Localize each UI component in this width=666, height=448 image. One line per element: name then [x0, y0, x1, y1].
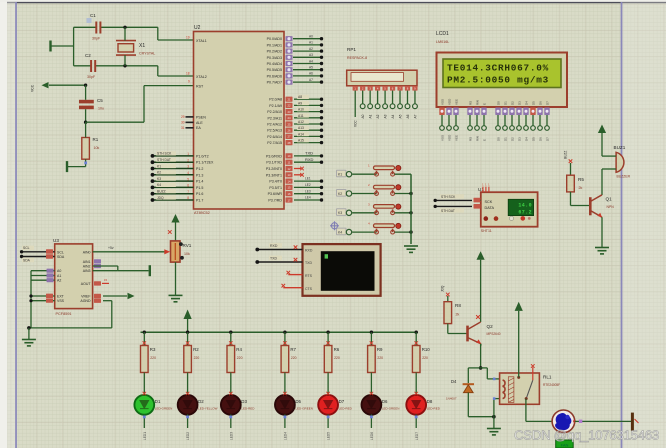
svg-text:R1: R1: [93, 137, 99, 142]
svg-text:PCF8591: PCF8591: [56, 312, 72, 316]
ground below RV1: [169, 295, 183, 301]
svg-text:P0.5/AD5: P0.5/AD5: [267, 68, 282, 72]
wire relay coil bottom to ground junction: [494, 398, 500, 400]
svg-text:LED6: LED6: [370, 432, 374, 440]
svg-text:CRYSTAL: CRYSTAL: [139, 52, 155, 56]
svg-text:D5: D5: [532, 137, 536, 141]
svg-text:A12: A12: [298, 120, 304, 124]
svg-text:P0.6/AD6: P0.6/AD6: [267, 74, 282, 78]
RV1 wiper arrow: [164, 249, 170, 254]
svg-text:P3.1/TXD: P3.1/TXD: [266, 161, 282, 165]
svg-text:LED-GREEN: LED-GREEN: [295, 407, 313, 411]
svg-text:P2.6/A14: P2.6/A14: [267, 135, 282, 139]
svg-text:LED-RED: LED-RED: [427, 407, 441, 411]
svg-text:K4: K4: [338, 231, 342, 235]
svg-text:C2: C2: [85, 53, 91, 58]
svg-text:U3: U3: [53, 238, 59, 243]
svg-text:D3: D3: [241, 399, 247, 404]
svg-text:LED5: LED5: [327, 432, 331, 440]
svg-text:D0: D0: [497, 101, 501, 105]
svg-text:TXD: TXD: [305, 261, 312, 265]
svg-text:BUZZER: BUZZER: [617, 175, 631, 179]
svg-text:RXD: RXD: [305, 157, 314, 162]
svg-text:1: 1: [187, 152, 189, 156]
svg-text:XTAL1: XTAL1: [196, 39, 207, 43]
wire below LED D3: [230, 414, 232, 428]
svg-text:P1.2: P1.2: [196, 167, 203, 171]
svg-text:A1: A1: [309, 41, 313, 45]
svg-text:VEE: VEE: [455, 135, 459, 141]
U2 PSEN ALE EA pins: [186, 116, 194, 118]
wire crystal to nets: [124, 27, 126, 40]
svg-text:P1.7: P1.7: [196, 199, 203, 203]
svg-text:A9: A9: [298, 101, 302, 105]
LED D1 LED-GREEN: [134, 395, 154, 415]
svg-text:P3.5/T1: P3.5/T1: [269, 186, 282, 190]
svg-text:11: 11: [288, 161, 291, 165]
svg-text:SCL: SCL: [57, 250, 64, 254]
svg-text:K3: K3: [157, 177, 161, 181]
svg-text:C5: C5: [97, 98, 103, 103]
svg-text:LED7: LED7: [415, 432, 419, 440]
svg-text:P0.2/AD2: P0.2/AD2: [267, 50, 282, 54]
wire Q2 emitter junction: [480, 344, 482, 346]
svg-text:A0: A0: [361, 114, 365, 118]
wire LED supply bus: [141, 331, 419, 333]
svg-text:Q1: Q1: [606, 197, 613, 202]
LED D7 LED-RED: [318, 395, 338, 415]
power arrow to relay common: [515, 302, 523, 311]
svg-text:31: 31: [181, 126, 185, 130]
svg-text:X1: X1: [139, 43, 145, 49]
svg-text:RS: RS: [469, 101, 473, 105]
svg-text:A8: A8: [298, 95, 302, 99]
svg-text:D2: D2: [511, 101, 515, 105]
svg-text:A5: A5: [399, 114, 403, 118]
svg-text:P1.1/T2EX: P1.1/T2EX: [196, 161, 214, 165]
wire Q1 emitter to ground: [601, 217, 603, 247]
ground below R1: [66, 161, 68, 172]
svg-text:P3.0/RXD: P3.0/RXD: [266, 154, 282, 158]
LED D3 LED-RED: [221, 395, 241, 415]
svg-text:RST: RST: [196, 85, 204, 89]
svg-text:A1: A1: [369, 114, 373, 118]
LCD LCD1 body: [437, 53, 568, 108]
svg-text:D0: D0: [497, 137, 501, 141]
svg-text:A3: A3: [309, 53, 313, 57]
wire left vertical: [73, 27, 75, 66]
svg-text:R3: R3: [150, 347, 156, 352]
wire below LED D5: [284, 414, 286, 428]
U2 P1 pins with net labels: [153, 155, 194, 157]
resistor R1: [82, 138, 90, 160]
svg-text:STH DAT: STH DAT: [441, 209, 455, 213]
svg-text:P0.1/AD1: P0.1/AD1: [267, 43, 282, 47]
svg-text:R6: R6: [334, 347, 340, 352]
svg-text:R7: R7: [290, 347, 296, 352]
op-amp U2 AT89C52 microcontroller body: [194, 32, 285, 210]
svg-text:STH SCK: STH SCK: [441, 195, 456, 199]
svg-text:D3: D3: [518, 101, 522, 105]
AOUT stub: [94, 281, 101, 285]
svg-text:220: 220: [334, 356, 340, 360]
svg-text:10: 10: [287, 154, 291, 158]
svg-text:VSS: VSS: [441, 135, 445, 141]
svg-text:P2.3/A11: P2.3/A11: [267, 116, 282, 120]
relay coil: [503, 380, 505, 399]
svg-text:LE4: LE4: [305, 196, 311, 200]
svg-text:10k: 10k: [184, 252, 190, 256]
svg-text:A7: A7: [413, 114, 417, 118]
svg-text:220: 220: [422, 356, 428, 360]
svg-text:VREF: VREF: [81, 295, 90, 299]
svg-text:XTAL2: XTAL2: [196, 75, 207, 79]
wire A0 A1 A2 to ground rail: [31, 270, 55, 272]
svg-text:A6: A6: [406, 114, 410, 118]
svg-text:P1.5: P1.5: [196, 186, 203, 190]
svg-text:D8: D8: [427, 399, 433, 404]
resistor R6: [326, 331, 329, 334]
svg-text:LED1: LED1: [143, 432, 147, 440]
svg-text:K1: K1: [338, 173, 342, 177]
svg-text:R8: R8: [455, 303, 461, 308]
svg-text:D4: D4: [525, 101, 529, 105]
svg-text:P2.0/A8: P2.0/A8: [269, 98, 282, 102]
transistor Q1 NPN: [589, 197, 592, 215]
wire AIN0 to RV1 wiper: [93, 251, 165, 253]
wire below LED D8: [415, 414, 417, 428]
fan label green box: [556, 440, 574, 448]
svg-text:AT89C52: AT89C52: [194, 211, 210, 215]
power arrow above Q2: [477, 251, 485, 260]
LCD screen with text: [443, 59, 561, 88]
svg-text:14.0: 14.0: [518, 203, 532, 209]
supply bar terminal: [631, 413, 634, 431]
wire VCC to C5: [49, 84, 86, 86]
svg-text:P1.4: P1.4: [196, 180, 203, 184]
wire below LED D6: [370, 414, 372, 428]
svg-text:LE1: LE1: [305, 177, 311, 181]
wire U1 DATA: [435, 205, 472, 207]
svg-text:A0: A0: [57, 269, 61, 273]
svg-text:LED-RED: LED-RED: [241, 407, 255, 411]
transistor Q2: [466, 326, 469, 342]
svg-text:RXD: RXD: [270, 244, 278, 248]
svg-text:VDD: VDD: [448, 98, 452, 105]
svg-text:RESPACK-8: RESPACK-8: [347, 56, 367, 60]
resistor R9: [370, 331, 373, 334]
svg-text:P3.6/WR: P3.6/WR: [268, 192, 283, 196]
svg-text:D2: D2: [511, 137, 515, 141]
svg-text:E: E: [483, 139, 487, 141]
svg-text:VDD: VDD: [448, 134, 452, 141]
svg-text:8: 8: [187, 196, 189, 200]
capacitor C1: [96, 22, 100, 34]
svg-text:15: 15: [287, 186, 291, 190]
svg-text:18: 18: [186, 72, 190, 76]
svg-text:P3.4/T0: P3.4/T0: [269, 180, 282, 184]
svg-text:D1: D1: [504, 101, 508, 105]
svg-text:15: 15: [104, 278, 108, 282]
LED D2 LED-YELLOW: [178, 395, 198, 415]
svg-text:SCL: SCL: [23, 246, 30, 250]
svg-text:P1.6: P1.6: [196, 192, 203, 196]
svg-text:LE3: LE3: [305, 189, 311, 193]
svg-text:A5: A5: [309, 66, 313, 70]
svg-text:RP1: RP1: [347, 47, 356, 52]
svg-text:P2.4/A12: P2.4/A12: [267, 123, 282, 127]
wire below LED D7: [327, 414, 329, 428]
svg-text:LED4: LED4: [284, 432, 288, 440]
ground below U3: [22, 340, 36, 346]
svg-text:RL1: RL1: [543, 375, 552, 380]
svg-text:10u: 10u: [98, 107, 104, 111]
svg-text:10k: 10k: [94, 146, 100, 150]
svg-text:PSEN: PSEN: [196, 115, 206, 119]
svg-text:A2: A2: [376, 114, 380, 118]
svg-text:AIN3: AIN3: [83, 269, 91, 273]
svg-text:PM2.5:0050 mg/m3: PM2.5:0050 mg/m3: [447, 74, 549, 85]
svg-text:A15: A15: [298, 139, 304, 143]
svg-text:9: 9: [188, 80, 190, 84]
svg-text:AIN2: AIN2: [83, 265, 91, 269]
power arrow above buzzer: [598, 125, 606, 134]
svg-text:VCC: VCC: [31, 84, 35, 92]
svg-text:LED-RED: LED-RED: [339, 407, 353, 411]
svg-text:EA: EA: [196, 126, 201, 130]
LED D6 LED-GREEN: [362, 395, 382, 415]
wire buttons common to ground: [410, 174, 412, 244]
svg-text:A13: A13: [298, 126, 304, 130]
svg-text:A6: A6: [309, 72, 313, 76]
ground below buttons: [404, 246, 418, 252]
svg-text:67.2: 67.2: [518, 210, 532, 216]
svg-text:SDA: SDA: [57, 255, 65, 259]
svg-text:AGND: AGND: [80, 299, 91, 303]
resistor R7: [283, 331, 286, 334]
U1 indicator dots: [484, 216, 489, 221]
LED D5 LED-GREEN: [275, 395, 295, 415]
svg-text:R2: R2: [193, 347, 199, 352]
button K2: [337, 190, 347, 197]
svg-text:220: 220: [194, 356, 200, 360]
svg-text:SDA: SDA: [23, 258, 31, 262]
svg-text:220: 220: [150, 356, 156, 360]
svg-text:LM016L: LM016L: [436, 40, 449, 44]
svg-text:DATA: DATA: [485, 206, 495, 210]
relay NO stub: [532, 367, 534, 380]
svg-text:A11: A11: [298, 114, 304, 118]
svg-text:TXD: TXD: [270, 256, 277, 260]
svg-text:220: 220: [237, 356, 243, 360]
svg-text:30: 30: [181, 120, 185, 124]
svg-text:K1: K1: [157, 164, 161, 168]
svg-text:R4: R4: [236, 347, 242, 352]
svg-text:25: 25: [287, 122, 291, 126]
power arrow on LED bus: [184, 310, 192, 320]
svg-text:U2: U2: [194, 25, 201, 31]
svg-text:D2: D2: [198, 399, 204, 404]
ground below relay junction: [493, 417, 495, 428]
wire VREF to power arrow: [94, 294, 101, 298]
wire relay pole to motor: [525, 399, 527, 422]
svg-text:VSS: VSS: [441, 99, 445, 105]
svg-text:P2.7/A15: P2.7/A15: [267, 141, 282, 145]
svg-text:A4: A4: [391, 114, 395, 118]
wire XTAL1 net: [74, 26, 96, 28]
wire below LED D2: [187, 414, 189, 428]
svg-text:D6: D6: [539, 137, 543, 141]
relay switch: [526, 380, 533, 398]
svg-text:P2.5/A13: P2.5/A13: [267, 129, 282, 133]
svg-text:A2: A2: [57, 279, 61, 283]
svg-text:A14: A14: [298, 132, 304, 136]
svg-text:Q2: Q2: [487, 324, 494, 329]
resistor R2: [186, 331, 189, 334]
svg-text:4: 4: [187, 171, 189, 175]
svg-text:LED3: LED3: [229, 432, 233, 440]
svg-text:7: 7: [187, 190, 189, 194]
wire terminal RXD: [257, 249, 302, 251]
wire SCL SDA: [22, 251, 55, 253]
ground right of U3: [149, 265, 151, 276]
svg-text:27: 27: [287, 135, 291, 139]
svg-text:D4: D4: [451, 379, 457, 384]
svg-text:13: 13: [287, 173, 291, 177]
svg-text:LED-GREEN: LED-GREEN: [382, 407, 400, 411]
svg-text:A3: A3: [384, 114, 388, 118]
LCD pin number boxes and wires: [439, 108, 444, 116]
svg-text:2: 2: [187, 158, 189, 162]
svg-text:P0.0/AD0: P0.0/AD0: [267, 37, 282, 41]
svg-text:P0.4/AD4: P0.4/AD4: [267, 62, 282, 66]
RP1 pins and terminals: [353, 86, 358, 91]
svg-text:A7: A7: [309, 78, 313, 82]
svg-text:P1.0/T2: P1.0/T2: [196, 154, 209, 158]
svg-text:D1: D1: [504, 137, 508, 141]
wire EXT VSS: [31, 295, 55, 297]
svg-text:14: 14: [287, 179, 291, 183]
svg-text:LE2: LE2: [305, 183, 311, 187]
svg-text:R9: R9: [377, 347, 383, 352]
svg-text:P3.3/INT1: P3.3/INT1: [266, 173, 282, 177]
svg-text:A1: A1: [57, 274, 61, 278]
svg-text:19: 19: [186, 36, 190, 40]
svg-text:P3.2/INT0: P3.2/INT0: [266, 167, 282, 171]
U1 display: [508, 199, 533, 215]
svg-text:P0.7/AD7: P0.7/AD7: [267, 81, 282, 85]
svg-text:RS: RS: [469, 137, 473, 141]
svg-text:R5: R5: [578, 177, 584, 182]
svg-text:RW: RW: [476, 100, 480, 105]
svg-text:P2.1/A9: P2.1/A9: [269, 104, 282, 108]
button K1: [337, 170, 347, 177]
svg-text:VEE: VEE: [455, 99, 459, 105]
svg-text:2k: 2k: [456, 313, 460, 317]
svg-text:+5v: +5v: [108, 246, 114, 250]
svg-text:P1.3: P1.3: [196, 173, 203, 177]
svg-text:E: E: [483, 103, 487, 105]
power arrow VREF: [128, 293, 135, 299]
svg-text:D6: D6: [382, 399, 388, 404]
motor with fan: [552, 410, 575, 433]
crystal X1: [116, 41, 136, 56]
svg-text:K2: K2: [157, 171, 161, 175]
wire AGND return: [94, 299, 101, 303]
svg-text:28: 28: [287, 141, 291, 145]
svg-text:D7: D7: [546, 101, 550, 105]
svg-text:VCC: VCC: [354, 120, 358, 127]
wire R5 to Q1 base: [570, 192, 572, 206]
svg-text:220: 220: [377, 356, 383, 360]
capacitor C5: [79, 100, 94, 109]
terminal screen: [321, 251, 375, 291]
wire R8 to Q2 base: [447, 324, 449, 334]
svg-text:2k: 2k: [579, 186, 583, 190]
svg-text:ALE: ALE: [196, 121, 203, 125]
svg-text:STH SCK: STH SCK: [157, 152, 172, 156]
svg-text:30pF: 30pF: [92, 37, 101, 41]
resistor R10: [415, 331, 418, 334]
svg-text:P2.2/A10: P2.2/A10: [267, 110, 282, 114]
svg-text:LED-YELLOW: LED-YELLOW: [198, 407, 218, 411]
svg-text:23: 23: [287, 110, 291, 114]
svg-text:D7: D7: [546, 137, 550, 141]
svg-text:D5: D5: [295, 399, 301, 404]
svg-text:AIN0: AIN0: [83, 250, 91, 254]
svg-text:D6: D6: [539, 101, 543, 105]
svg-text:D3: D3: [518, 137, 522, 141]
relay core: [508, 377, 514, 403]
svg-text:LED-GREEN: LED-GREEN: [155, 407, 173, 411]
svg-text:16: 16: [287, 192, 291, 196]
svg-text:12: 12: [287, 167, 291, 171]
virtual terminal body: [303, 244, 381, 296]
svg-text:LCD1: LCD1: [436, 31, 449, 37]
svg-text:3: 3: [187, 165, 189, 169]
wire RV1 to ground: [175, 262, 177, 295]
origin marker: [330, 221, 339, 230]
ground below Q1: [595, 248, 609, 254]
svg-text:STH DAT: STH DAT: [157, 158, 171, 162]
svg-text:A0: A0: [309, 35, 313, 39]
LED D8 LED-RED: [406, 395, 426, 415]
resistor R5: [570, 163, 572, 175]
resistor R8: [447, 296, 449, 302]
wire junction to diode: [468, 367, 480, 369]
svg-text:29: 29: [181, 115, 185, 119]
svg-text:TE014.3CRH067.0%: TE014.3CRH067.0%: [447, 63, 549, 74]
wire terminal TXD: [257, 261, 302, 263]
wire junction to relay coil top: [481, 367, 488, 369]
svg-text:A10: A10: [298, 108, 304, 112]
svg-text:RXD: RXD: [305, 249, 313, 253]
svg-text:26: 26: [287, 129, 291, 133]
resistor R3: [143, 331, 146, 334]
svg-text:RTE24005F: RTE24005F: [543, 383, 560, 387]
button K4: [337, 228, 347, 235]
svg-text:SHT11: SHT11: [481, 229, 492, 233]
svg-text:K4: K4: [157, 183, 161, 187]
svg-text:C1: C1: [90, 13, 96, 18]
wire AIN1 AIN2 AIN3 to ground: [94, 259, 101, 263]
svg-text:22: 22: [287, 104, 291, 108]
ground near C1 C2: [49, 41, 51, 52]
svg-text:A2: A2: [309, 47, 313, 51]
wire below LED D1: [143, 414, 145, 428]
svg-text:220: 220: [291, 356, 297, 360]
svg-text:BUZZ: BUZZ: [564, 151, 568, 159]
